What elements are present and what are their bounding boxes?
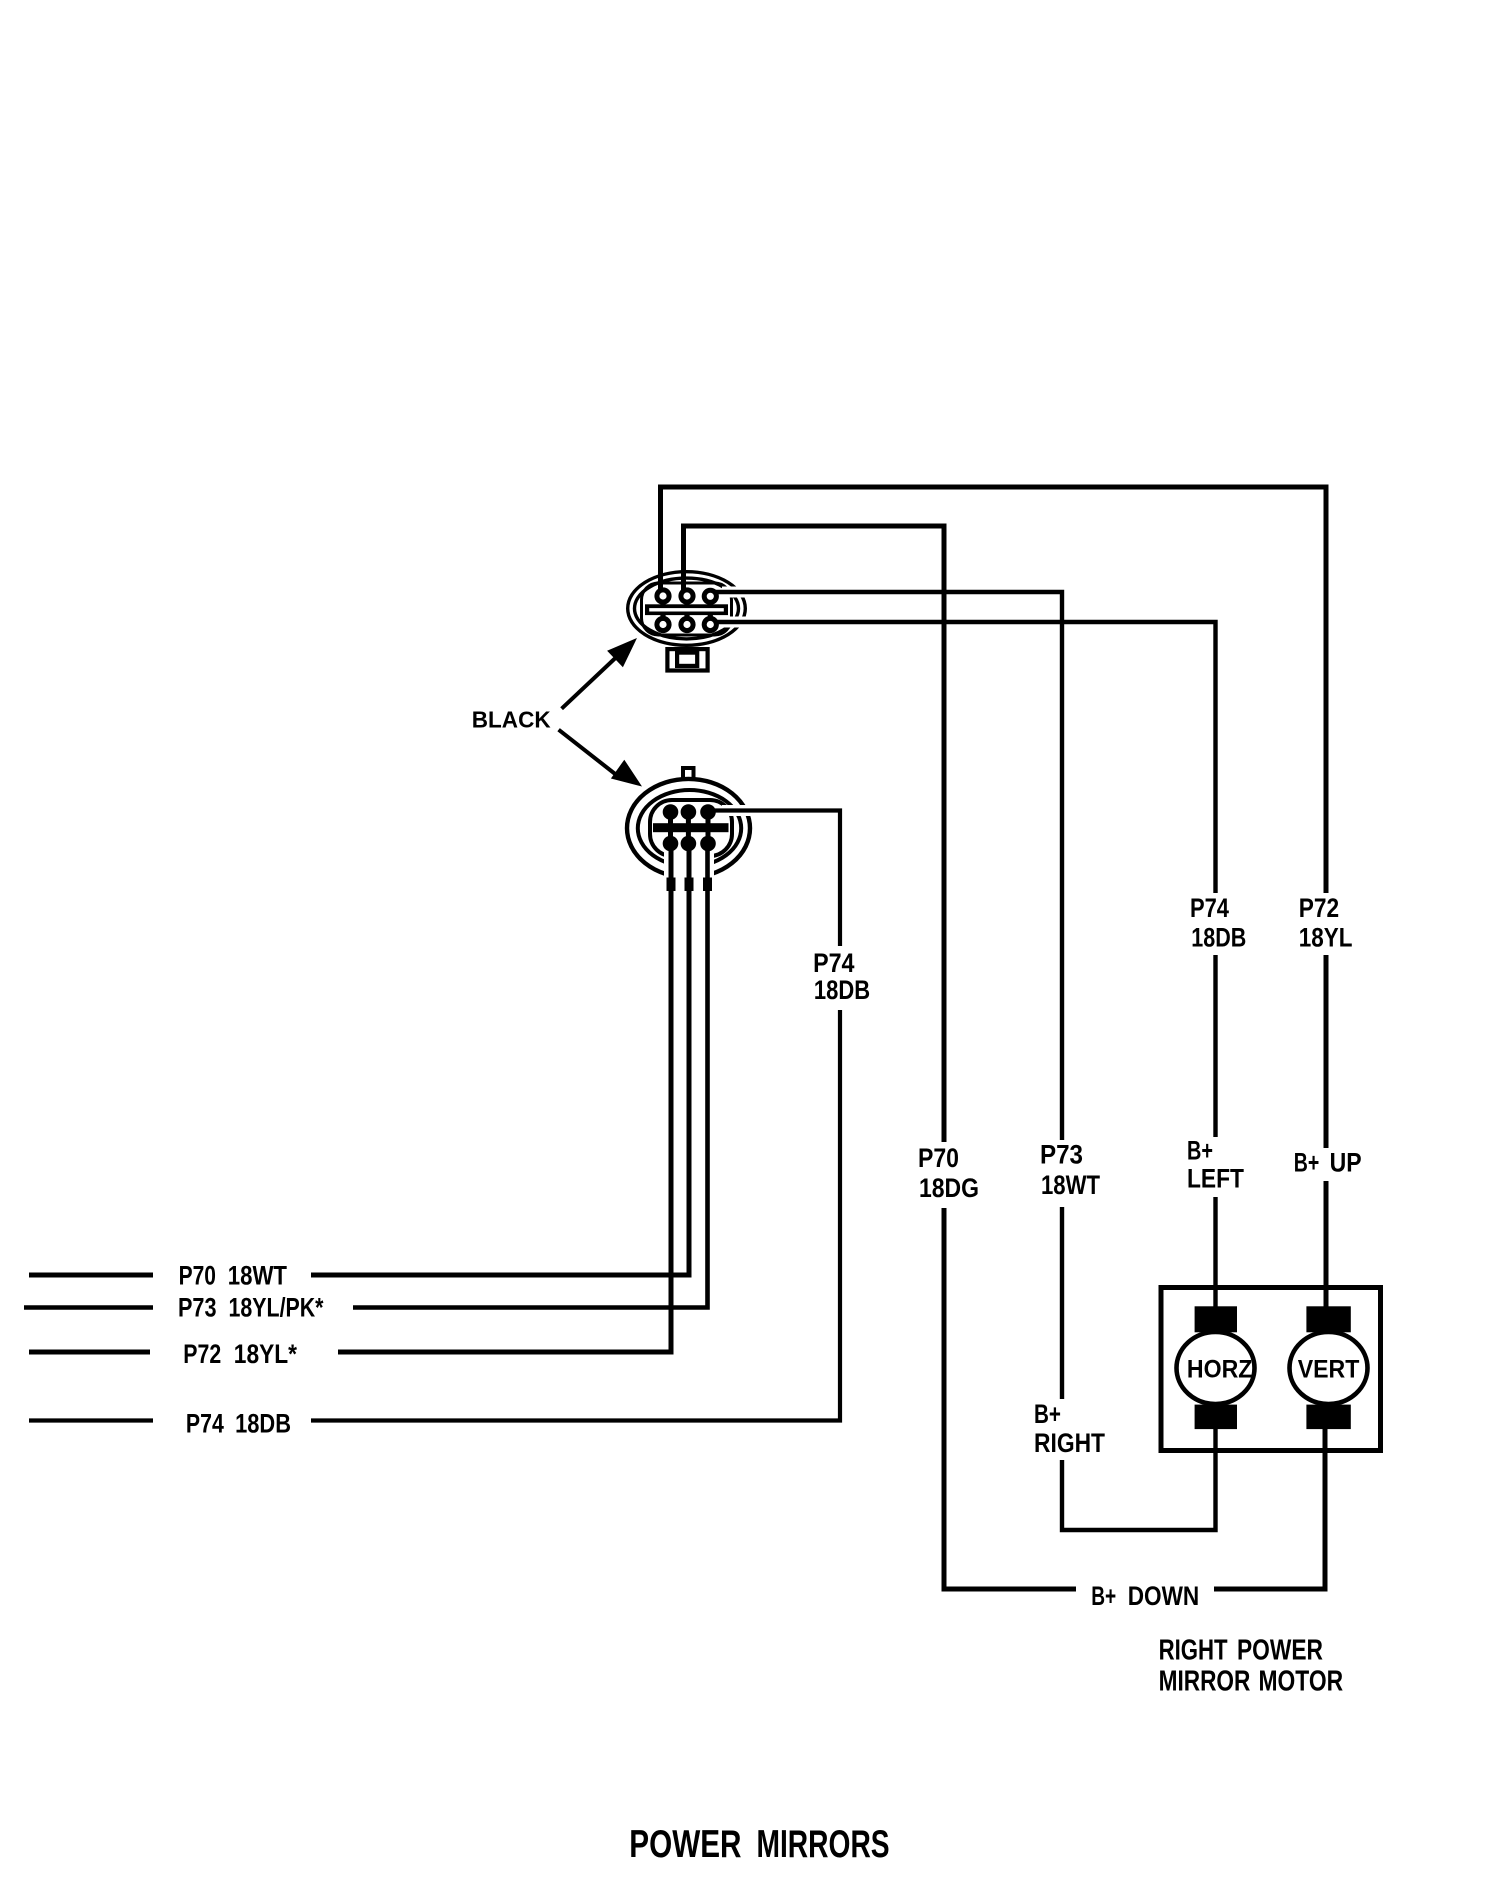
- svg-text:UP: UP: [1330, 1148, 1362, 1178]
- wire P74 18DB from C2 right side down to left label row: [311, 811, 840, 1421]
- svg-text:MOTOR: MOTOR: [1259, 1665, 1344, 1697]
- white gaps behind wire labels: [808, 893, 1366, 1611]
- arrow from BLACK to connector C2: [559, 730, 642, 787]
- svg-text:18DB: 18DB: [814, 975, 870, 1005]
- svg-text:18DB: 18DB: [1191, 923, 1246, 953]
- svg-text:P70: P70: [918, 1143, 959, 1173]
- wire stub left of P72 18YL* label: [29, 1350, 150, 1355]
- svg-text:VERT: VERT: [1298, 1356, 1360, 1384]
- motor VERT top terminal: [1306, 1306, 1350, 1332]
- svg-text:18WT: 18WT: [1041, 1170, 1100, 1200]
- motor HORZ top terminal: [1195, 1306, 1237, 1332]
- connector C2 ring stubs at bottom wire crossings: [667, 878, 713, 892]
- connector C2 (lower black connector) rings: [627, 768, 750, 878]
- wire P73 18YL/PK* from C2 bottom-right pin: [353, 845, 708, 1308]
- svg-text:18YL/PK*: 18YL/PK*: [229, 1293, 324, 1323]
- wire P74 18DB (B+ LEFT) from C1 right side to HORZ motor top: [706, 622, 1216, 1310]
- svg-text:BLACK: BLACK: [472, 707, 551, 733]
- svg-text:18YL*: 18YL*: [234, 1339, 298, 1369]
- motor VERT body: [1290, 1332, 1368, 1404]
- svg-text:DOWN: DOWN: [1128, 1581, 1200, 1611]
- svg-text:LEFT: LEFT: [1187, 1164, 1244, 1194]
- motor HORZ body: [1177, 1332, 1255, 1404]
- svg-text:P74: P74: [813, 948, 854, 978]
- wire stub left of P70 18WT label: [29, 1273, 153, 1278]
- svg-text:P70: P70: [179, 1261, 216, 1291]
- svg-text:RIGHT: RIGHT: [1034, 1428, 1105, 1458]
- svg-text:MIRROR: MIRROR: [1159, 1665, 1251, 1697]
- svg-text:18WT: 18WT: [228, 1261, 288, 1291]
- svg-text:P73: P73: [1040, 1139, 1083, 1169]
- svg-text:18YL: 18YL: [1299, 923, 1353, 953]
- svg-text:MIRRORS: MIRRORS: [757, 1823, 890, 1866]
- svg-text:P72: P72: [1299, 893, 1339, 923]
- svg-text:HORZ: HORZ: [1187, 1356, 1253, 1384]
- svg-text:18DG: 18DG: [919, 1173, 979, 1203]
- svg-text:P74: P74: [186, 1409, 224, 1439]
- svg-text:RIGHT: RIGHT: [1159, 1634, 1228, 1666]
- svg-text:P72: P72: [183, 1339, 221, 1369]
- connector C1 pins and rail: [645, 589, 728, 631]
- motor box RIGHT POWER MIRROR MOTOR: [1161, 1288, 1381, 1451]
- svg-text:B+: B+: [1187, 1136, 1213, 1166]
- arrow from BLACK to connector C1: [562, 638, 637, 709]
- wire P72 18YL (B+ UP) from C1 top-left pin to VERT motor: [661, 487, 1327, 1310]
- svg-text:B+: B+: [1294, 1148, 1320, 1178]
- wire P70 18DG (B+ DOWN) from C1 top-middle pin to VERT motor bottom: [684, 526, 1326, 1589]
- wire P70 18WT from C2 bottom-middle pin: [311, 845, 689, 1275]
- wire P72 18YL* from C2 bottom-left pin: [338, 845, 671, 1352]
- wire P73 18WT (B+ RIGHT) from C1 right side to HORZ motor bottom: [706, 592, 1216, 1530]
- svg-text:POWER: POWER: [629, 1823, 741, 1866]
- svg-text:P73: P73: [178, 1293, 217, 1323]
- wire casing gaps where wires cross connector rings: [689, 592, 758, 898]
- connector C2 pins and rail: [653, 804, 729, 851]
- svg-text:POWER: POWER: [1237, 1634, 1323, 1666]
- svg-text:P74: P74: [1190, 893, 1229, 923]
- wire stub left of P74 18DB label: [29, 1418, 153, 1422]
- motor VERT bottom terminal: [1306, 1405, 1350, 1430]
- motor HORZ bottom terminal: [1195, 1405, 1237, 1430]
- svg-text:B+: B+: [1091, 1581, 1116, 1611]
- svg-text:B+: B+: [1034, 1399, 1061, 1429]
- connector C1 (upper black connector) rings: [628, 572, 746, 671]
- svg-text:18DB: 18DB: [235, 1409, 291, 1439]
- wire stub left of P73 18YL/PK* label: [24, 1305, 153, 1310]
